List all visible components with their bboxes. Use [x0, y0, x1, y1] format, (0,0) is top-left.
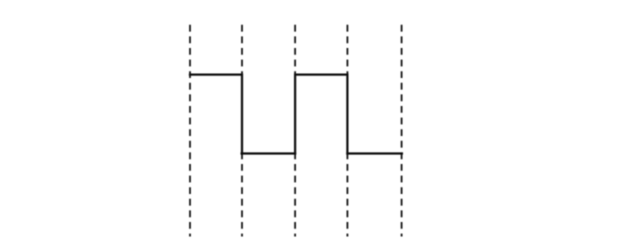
dashed timing gridline 2 — [241, 25, 243, 74]
wire low segment 1 — [241, 152, 297, 154]
wire low segment 2 — [346, 152, 403, 154]
dashed timing gridline 1 — [189, 25, 191, 237]
dashed timing gridline 4 — [346, 25, 348, 74]
dashed timing gridline 3 — [294, 25, 296, 74]
wire high segment 1 — [189, 73, 243, 75]
wire rising edge 1 — [294, 74, 296, 155]
wire falling edge 2 — [346, 74, 348, 155]
wire falling edge 1 — [241, 74, 243, 155]
dashed timing gridline 5 — [401, 25, 403, 237]
wire high segment 2 — [294, 73, 349, 75]
